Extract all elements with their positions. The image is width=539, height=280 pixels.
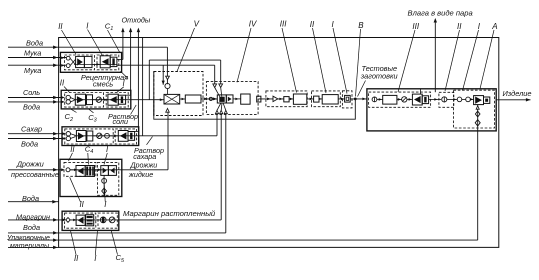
B5 entry diamond — [66, 218, 70, 223]
waste wire w1 — [117, 59, 123, 61]
B5 wire — [106, 219, 110, 221]
B3 pump circle — [97, 133, 102, 138]
wire L1 bypass — [149, 59, 220, 61]
V kneader X-box — [164, 94, 180, 104]
leader — [147, 137, 153, 145]
B6 pack unit — [474, 96, 484, 105]
boundary loop — [59, 38, 499, 248]
B4 dashed sub-box II — [64, 162, 96, 176]
B2 wires — [70, 98, 74, 100]
B5 wire — [70, 219, 77, 221]
B4 wire — [95, 169, 102, 171]
B6 stub up — [420, 89, 422, 94]
B5 melter box — [76, 215, 85, 225]
B4 through wire — [70, 169, 116, 171]
svg-text:Дрожжи: Дрожжи — [130, 160, 158, 169]
svg-text:Сахар: Сахар — [21, 125, 42, 134]
svg-text:Упаковочные: Упаковочные — [6, 235, 50, 242]
B6 oven rect — [383, 95, 397, 104]
V flow arrow in — [154, 99, 164, 101]
input row: Вода 3 — [8, 138, 64, 140]
B6 cooler unit — [412, 94, 422, 105]
V bottom yeast arrow — [166, 108, 170, 112]
node B junction — [354, 98, 357, 101]
B3 wires — [93, 135, 97, 137]
chain dashed box II — [312, 91, 341, 107]
wire boundary to sugar line — [142, 37, 144, 135]
B3 through wire — [75, 135, 135, 137]
IV flow wire in — [206, 98, 217, 100]
return wire — [154, 99, 355, 119]
B1 wires converge X — [70, 58, 76, 65]
B3 input circles — [66, 132, 70, 136]
block IV dashed — [206, 82, 258, 115]
B3 filter unit — [118, 131, 128, 142]
input row: Вода 2 — [8, 101, 63, 103]
chain rect II — [322, 95, 338, 104]
B4 diamond on down wire — [102, 188, 107, 194]
waste wire w3 — [135, 131, 139, 133]
B4 internal down wire — [103, 175, 105, 196]
IV wire — [233, 98, 241, 100]
small box — [314, 96, 319, 102]
B1 sifter box — [76, 56, 85, 67]
small double box — [345, 95, 351, 102]
svg-text:Маргарин растопленный: Маргарин растопленный — [123, 209, 216, 218]
svg-text:Изделие: Изделие — [503, 89, 532, 98]
block V dashed — [154, 72, 203, 116]
B1 through wire — [74, 63, 117, 65]
svg-text:IV: IV — [249, 20, 257, 29]
svg-text:материалы: материалы — [10, 243, 50, 250]
open triangle — [273, 96, 278, 101]
IV port box — [257, 96, 261, 102]
water riser bottom — [225, 113, 227, 232]
svg-text:Дрожжи: Дрожжи — [16, 159, 44, 168]
svg-text:Вода: Вода — [23, 103, 40, 112]
B2 dashed sub-box I — [106, 93, 128, 108]
leader — [121, 71, 129, 78]
chain dashed box III — [266, 91, 307, 107]
B5 through wire — [70, 219, 115, 221]
svg-text:Мука: Мука — [24, 66, 41, 75]
IV cluster container box — [217, 95, 226, 103]
V rest rect — [185, 95, 201, 103]
B2 dashed sub-box II — [65, 93, 104, 108]
B2 mixer box — [75, 94, 85, 105]
B2 wire — [93, 99, 97, 101]
svg-text:II: II — [310, 20, 315, 29]
IV rest rect — [241, 94, 250, 104]
B1 dashed sub-box II — [65, 55, 95, 70]
B2 output wire to V — [126, 99, 154, 101]
IV divider out box — [226, 95, 233, 103]
B1 filter unit — [100, 56, 110, 68]
small box — [284, 97, 289, 102]
wire water to V block — [166, 47, 168, 84]
vapor arrow — [434, 20, 436, 93]
svg-text:A: A — [491, 22, 497, 31]
block B5 Маргарин растопленный outer — [62, 211, 119, 230]
svg-text:Вода: Вода — [21, 139, 38, 148]
B4 mixer box with hatch — [76, 166, 85, 177]
B6 circleV 2 — [442, 97, 447, 102]
block B2 Раствор соли outer — [61, 90, 131, 109]
B3 wires — [71, 134, 76, 136]
B6 dashed box 3 tall — [454, 90, 495, 128]
svg-text:B: B — [358, 21, 364, 30]
B6 small circles — [457, 97, 462, 102]
waste arrows — [121, 28, 124, 32]
B1 wire — [92, 63, 101, 65]
B6 dashed box 2 — [439, 92, 454, 107]
V water feed: open triangle + circle — [166, 76, 170, 79]
waste wire w2 — [126, 94, 131, 96]
B5 output wire (margarine) to IV riser — [115, 219, 222, 221]
B1 output wire L2 to IV — [117, 64, 215, 66]
B2 through wire — [74, 99, 126, 101]
B1 input circles — [66, 56, 70, 60]
B2 small box — [87, 95, 93, 105]
svg-text:жидкие: жидкие — [128, 170, 153, 179]
B5 pump circle with bar — [100, 217, 106, 223]
B3 mixer box — [76, 131, 86, 142]
B3 circle — [105, 133, 110, 138]
B1 dashed sub-box I — [97, 55, 119, 70]
svg-text:Вода: Вода — [23, 223, 40, 232]
B2 filter unit — [108, 94, 118, 105]
svg-text:V: V — [194, 20, 200, 29]
chain dashed box I — [342, 91, 352, 108]
svg-text:Отходы: Отходы — [122, 15, 151, 24]
B6 circleV entry — [372, 97, 377, 102]
B4 wire — [70, 169, 78, 171]
chain rect III — [293, 94, 306, 104]
B6 dashed box 1 — [369, 92, 431, 107]
IV top feed triangles — [213, 84, 217, 88]
block B1 Рецептурная смесь outer — [60, 52, 121, 72]
B3 dashed sub-box I — [115, 129, 136, 144]
output Изделие — [496, 99, 530, 101]
block B4 Дрожжи жидкие outer — [60, 159, 122, 196]
B5 circleSlash — [109, 217, 115, 223]
svg-text:смесь: смесь — [93, 80, 113, 89]
B6 circleSlash — [402, 97, 407, 102]
B5 wire — [93, 219, 101, 221]
wire water join down to main flow — [148, 60, 150, 100]
leader — [131, 105, 137, 115]
wire L2 branch down into V — [162, 65, 164, 85]
svg-text:Соль: Соль — [23, 88, 40, 97]
V wire — [180, 98, 186, 100]
svg-text:Влага в виде пара: Влага в виде пара — [408, 9, 473, 18]
block B6 outer — [367, 89, 496, 131]
svg-text:III: III — [412, 22, 419, 31]
B2 input circles — [66, 95, 70, 99]
V output wire — [201, 98, 217, 100]
svg-text:заготовки: заготовки — [360, 71, 398, 80]
B6 wire — [429, 98, 441, 100]
B3 dashed sub-box II — [65, 129, 113, 144]
input row: Мука 2 — [8, 64, 66, 66]
svg-text:III: III — [280, 20, 287, 29]
B3 output wire (sugar) to IV riser — [135, 135, 217, 137]
IV bottom fan to triangles — [217, 103, 221, 110]
svg-text:II: II — [457, 22, 462, 31]
B4 input circle — [66, 168, 70, 172]
block B3 Раствор сахара outer — [62, 127, 139, 146]
wire chain — [259, 98, 367, 100]
B6 wire — [447, 98, 457, 100]
V left edge solid — [153, 72, 155, 116]
B2 pump circle — [96, 97, 101, 102]
B4 dashed sub-box I tall — [98, 162, 119, 195]
B5 dashed sub-box I — [98, 213, 117, 228]
B4 output wire (yeast) to V riser — [116, 169, 168, 171]
svg-text:соли: соли — [113, 117, 128, 126]
B4 circle on down wire — [102, 178, 107, 183]
B5 dashed sub-box II — [65, 213, 96, 228]
IV divider cluster dark blob — [219, 97, 224, 102]
B1 box2 — [84, 56, 92, 67]
B4 fermenter boxes — [101, 166, 109, 176]
B3 small box — [87, 131, 93, 141]
svg-text:прессованные: прессованные — [11, 170, 59, 179]
B6 packaging riser with diamonds — [477, 105, 479, 241]
svg-text:Мука: Мука — [24, 48, 41, 57]
svg-text:Вода: Вода — [26, 39, 43, 48]
